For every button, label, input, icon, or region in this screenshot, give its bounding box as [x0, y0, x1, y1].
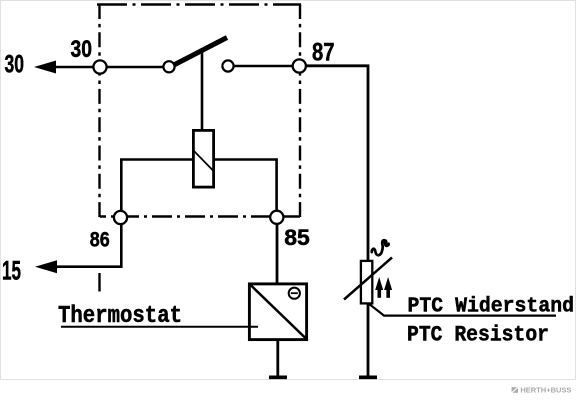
svg-text:15: 15 [2, 256, 21, 286]
svg-text:Thermostat: Thermostat [58, 303, 182, 330]
svg-text:87: 87 [312, 38, 335, 66]
relay box dash-dot bottom border [100, 215, 300, 217]
wire 87 to PTC branch [299, 66, 368, 261]
thermostat ground [269, 375, 287, 379]
PTC theta symbol [372, 240, 389, 255]
PTC diagonal [344, 258, 392, 300]
svg-text:85: 85 [284, 225, 310, 250]
herth+buss logo icon [511, 386, 571, 395]
svg-text:PTC Widerstand: PTC Widerstand [408, 296, 575, 319]
svg-text:30: 30 [71, 36, 93, 63]
thermostat ground wire [276, 341, 279, 378]
thermostat label underline [61, 326, 258, 328]
relay box left border tail dash [98, 273, 100, 292]
svg-text:HERTH+BUSS: HERTH+BUSS [520, 386, 571, 395]
wire contact to terminal 87 [228, 65, 299, 68]
arrow 30 [34, 61, 56, 74]
PTC arrows [375, 277, 392, 298]
switch lever [170, 38, 227, 68]
relay box dash-dot left border [98, 4, 100, 218]
wire coil left to 86 [121, 160, 192, 213]
relay box dash-dot right border [299, 4, 301, 217]
relay coil K [193, 130, 213, 187]
PTC lower wire [367, 303, 370, 378]
thermostat diagonal [249, 284, 308, 341]
terminal 86 circle [114, 211, 127, 224]
thermostat box [249, 284, 306, 340]
arrow 15 [35, 260, 57, 273]
wire 86 down to 15 [50, 224, 121, 267]
wire coil right to 85 [215, 160, 277, 213]
svg-text:PTC Resistor: PTC Resistor [407, 323, 549, 348]
relay box dash-dot top border [97, 3, 301, 6]
terminal 30 circle [93, 60, 106, 73]
svg-text:86: 86 [90, 227, 110, 251]
PTC label leader line [369, 304, 557, 316]
relay armature link wire [201, 49, 204, 130]
PTC resistor body [361, 261, 372, 304]
switch contact right [222, 60, 233, 71]
terminal 87 circle [293, 59, 306, 72]
svg-text:30: 30 [5, 51, 25, 79]
wire terminal 30 to arrow [48, 66, 169, 69]
terminal 85 circle [270, 211, 283, 224]
switch contact left [163, 61, 174, 72]
PTC ground [359, 375, 377, 379]
thermostat minus circle [289, 288, 300, 299]
wire 85 down to thermostat [276, 224, 279, 283]
